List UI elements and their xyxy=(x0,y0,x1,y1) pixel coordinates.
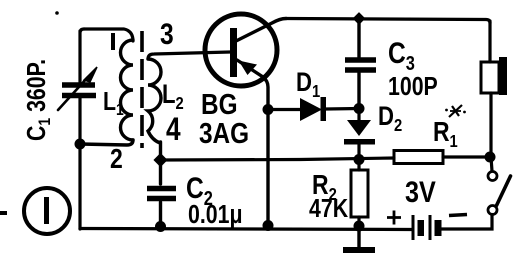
wire right rail xyxy=(490,21,492,171)
wire switch to battery minus xyxy=(442,215,493,230)
capacitor C1 arrow xyxy=(58,77,88,110)
node: D2/R2/mid-wire junction xyxy=(354,154,365,165)
transistor base bar xyxy=(230,28,237,77)
svg-text:C1 360P.: C1 360P. xyxy=(22,59,54,141)
wire L2 pin4 down to node xyxy=(159,142,162,160)
label pin 1 xyxy=(111,33,115,50)
svg-text:R1: R1 xyxy=(433,117,458,151)
node: R1 / right rail junction xyxy=(485,152,496,163)
resistor R2 body xyxy=(357,160,360,227)
node: C3 top on rail xyxy=(353,12,366,25)
label R1 asterisk mark xyxy=(445,105,466,117)
inductor L1 (4 arcs bulging left) xyxy=(120,40,133,140)
wire R1 to right rail xyxy=(443,155,490,158)
svg-text:3: 3 xyxy=(160,17,174,51)
transformer core (dashed) xyxy=(140,31,144,148)
wire top rail xyxy=(286,19,490,24)
earphone bar xyxy=(499,57,507,95)
label battery plus xyxy=(387,211,401,225)
switch lever xyxy=(497,176,511,206)
node: C2 bottom on ground rail xyxy=(155,221,166,232)
diode D1 cathode bar xyxy=(321,97,327,121)
capacitor C3 xyxy=(357,19,360,108)
svg-text:L1: L1 xyxy=(103,87,124,119)
diode D1 triangle xyxy=(300,98,322,121)
wire bottom rail xyxy=(80,229,412,230)
svg-text:0.01μ: 0.01μ xyxy=(188,200,243,230)
svg-text:L2: L2 xyxy=(162,80,184,113)
transistor emitter wire xyxy=(237,60,268,226)
svg-text:47K: 47K xyxy=(309,194,348,224)
node: L1 pin2 / C1 junction xyxy=(75,139,86,150)
wire L1 pin2 to left rail xyxy=(80,140,133,145)
svg-text:2: 2 xyxy=(110,144,123,175)
svg-text:3V: 3V xyxy=(405,175,436,209)
svg-text:C3: C3 xyxy=(388,36,415,75)
transistor collector wire xyxy=(236,19,286,42)
svg-text:D2: D2 xyxy=(378,102,402,135)
svg-text:BG: BG xyxy=(201,88,238,120)
node: emitter bottom on ground rail xyxy=(263,220,274,231)
wire mid horizontal (node to R1) xyxy=(161,158,395,160)
svg-text:3AG: 3AG xyxy=(199,117,249,149)
earphone body xyxy=(481,62,499,93)
switch contact circles xyxy=(488,172,497,181)
figure number circle 1 xyxy=(24,188,70,234)
svg-text:D1: D1 xyxy=(296,68,320,101)
stray mark left edge xyxy=(0,211,7,215)
ground bar xyxy=(343,247,375,253)
wire D1 cathode to node xyxy=(326,107,359,111)
resistor R1 body xyxy=(394,151,443,164)
node: L2/C2/R wire junction xyxy=(153,153,167,167)
wire left rail vertical xyxy=(80,29,84,229)
svg-text:100P: 100P xyxy=(388,72,438,102)
inductor L2 (3 arcs bulging right) xyxy=(148,59,161,143)
capacitor C2 xyxy=(159,160,162,227)
svg-text:4: 4 xyxy=(166,113,181,148)
wire D1 anode xyxy=(268,108,300,111)
diode D2 triangle xyxy=(357,109,360,121)
wire D2 to node xyxy=(357,144,360,160)
node: D1/C3/D2 junction xyxy=(354,103,365,114)
node: emitter / D1 junction xyxy=(263,104,274,115)
transistor BG circle xyxy=(205,14,277,86)
label battery minus xyxy=(449,215,467,216)
ground stub xyxy=(357,226,360,247)
wire L2 pin3 to transistor base xyxy=(148,52,230,59)
capacitor C1 variable, plates xyxy=(62,85,96,96)
stray mark top-left xyxy=(55,11,59,15)
diode D2 cathode bar xyxy=(344,139,375,145)
transistor emitter arrow xyxy=(239,61,258,76)
battery plates xyxy=(413,215,442,240)
node: R2 bottom on ground rail xyxy=(354,221,365,232)
wire top-left horizontal (L1 pin1 to left rail) xyxy=(84,29,133,41)
